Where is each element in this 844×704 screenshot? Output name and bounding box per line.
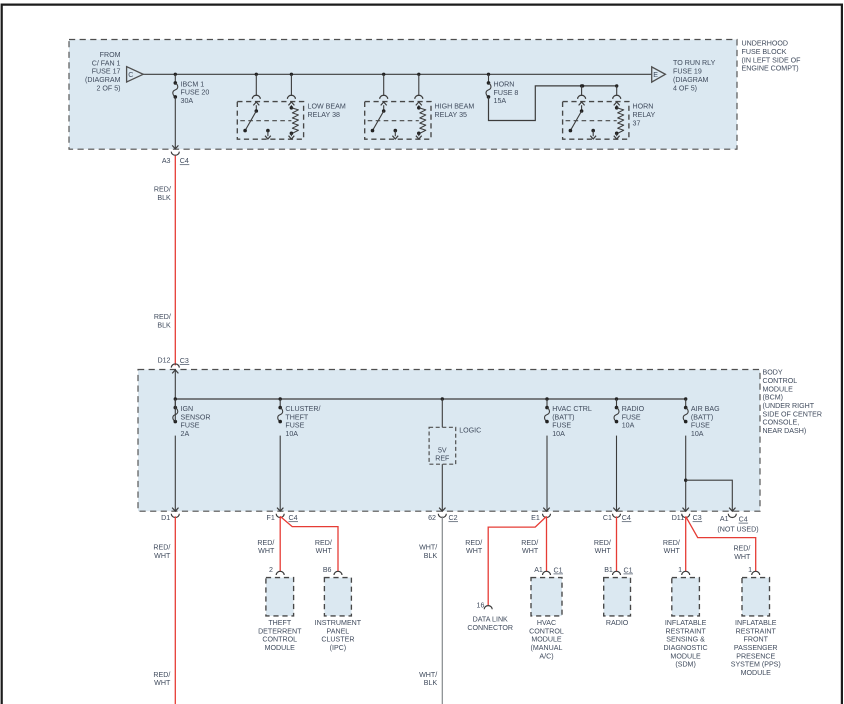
svg-text:SYSTEM (PPS): SYSTEM (PPS) [731, 661, 781, 669]
svg-text:A/C): A/C) [539, 652, 553, 660]
svg-text:RED/: RED/ [465, 539, 482, 547]
svg-text:LOW BEAM: LOW BEAM [308, 103, 346, 111]
svg-text:RED/: RED/ [257, 539, 274, 547]
svg-text:(UNDER RIGHT: (UNDER RIGHT [763, 402, 815, 410]
svg-text:MODULE: MODULE [763, 385, 794, 393]
wire RED/BLK (fuse block to BCM) [174, 156, 176, 366]
svg-text:MODULE: MODULE [265, 644, 296, 652]
svg-text:BLK: BLK [424, 679, 438, 687]
svg-text:UNDERHOOD: UNDERHOOD [742, 40, 789, 48]
svg-text:BLK: BLK [157, 321, 171, 329]
label RED/WHT (radio) [594, 539, 612, 555]
svg-text:(BCM): (BCM) [763, 394, 784, 402]
svg-text:RESTRAINT: RESTRAINT [665, 627, 706, 635]
svg-text:BLK: BLK [157, 194, 171, 202]
svg-text:(IN LEFT SIDE OF: (IN LEFT SIDE OF [742, 56, 802, 64]
svg-text:1: 1 [748, 566, 752, 574]
svg-text:C4: C4 [739, 516, 748, 524]
svg-text:WHT: WHT [316, 547, 333, 555]
svg-text:DATA LINK: DATA LINK [473, 615, 508, 623]
connector 62/C2 [428, 508, 458, 523]
svg-text:FROM: FROM [100, 51, 121, 59]
svg-text:D1: D1 [161, 514, 170, 522]
svg-text:REF: REF [435, 455, 450, 463]
label RED/WHT (DLC) [465, 539, 483, 555]
svg-text:CLUSTER/: CLUSTER/ [285, 405, 320, 413]
svg-text:RED/: RED/ [315, 539, 332, 547]
svg-text:16: 16 [477, 601, 485, 609]
svg-text:C1: C1 [624, 566, 633, 574]
svg-text:FUSE: FUSE [552, 422, 571, 430]
label WHT/BLK lower [419, 671, 437, 687]
svg-text:E: E [653, 71, 658, 79]
svg-text:RED/: RED/ [663, 539, 680, 547]
svg-text:SENSOR: SENSOR [181, 413, 211, 421]
svg-text:D12: D12 [157, 357, 170, 365]
svg-text:SENSING &: SENSING & [666, 636, 705, 644]
svg-text:WHT: WHT [258, 547, 275, 555]
data link connector (pin 16) [467, 601, 513, 631]
svg-text:F1: F1 [267, 514, 275, 522]
svg-text:B1: B1 [604, 566, 613, 574]
svg-text:HVAC: HVAC [537, 619, 556, 627]
svg-text:HVAC CTRL: HVAC CTRL [552, 405, 592, 413]
svg-text:10A: 10A [622, 422, 635, 430]
svg-text:30A: 30A [181, 97, 194, 105]
connector D12/C3 at BCM entry [157, 357, 189, 368]
svg-text:WHT: WHT [154, 552, 171, 560]
svg-text:DIAGNOSTIC: DIAGNOSTIC [664, 644, 708, 652]
svg-text:RED/: RED/ [154, 313, 171, 321]
svg-text:FUSE 8: FUSE 8 [494, 89, 519, 97]
relay HIGH BEAM RELAY 35 [365, 73, 475, 140]
svg-text:C3: C3 [180, 357, 189, 365]
svg-text:WHT: WHT [664, 547, 681, 555]
label WHT/BLK upper [419, 544, 437, 560]
svg-text:CONSOLE,: CONSOLE, [763, 419, 800, 427]
wire main feed bus [143, 73, 652, 75]
module INFLATABLE RESTRAINT PPS [731, 566, 781, 677]
svg-text:FUSE 20: FUSE 20 [181, 89, 210, 97]
svg-text:PANEL: PANEL [327, 627, 350, 635]
fuse IGN SENSOR FUSE 2A [173, 397, 211, 511]
svg-text:(MANUAL: (MANUAL [531, 644, 563, 652]
connector E1 [531, 508, 550, 522]
svg-text:AIR BAG: AIR BAG [691, 405, 720, 413]
svg-text:RED/: RED/ [153, 544, 170, 552]
svg-text:62: 62 [428, 514, 436, 522]
wire RED/WHT E1 branch to data link connector [488, 516, 546, 606]
wire RED/WHT F1 branch to IPC [280, 516, 338, 571]
svg-text:PASSENGER: PASSENGER [734, 644, 778, 652]
svg-text:WHT: WHT [734, 553, 751, 561]
svg-text:C2: C2 [449, 514, 458, 522]
svg-text:RELAY: RELAY [633, 111, 656, 119]
off-page arrow C (from C/Fan 1 Fuse 17) [85, 51, 143, 92]
svg-text:FUSE 19: FUSE 19 [673, 68, 702, 76]
svg-text:PRESENCE: PRESENCE [736, 652, 775, 660]
connector A3/C4 at fuse block exit [162, 152, 189, 166]
fuse CLUSTER/THEFT FUSE 10A [278, 397, 321, 511]
svg-text:RELAY 38: RELAY 38 [308, 111, 341, 119]
fuse IBCM 1 FUSE 20 30A [172, 73, 209, 149]
body control module (BCM) dashed box [138, 370, 760, 512]
svg-text:2 OF 5): 2 OF 5) [96, 84, 120, 92]
svg-text:(BATT): (BATT) [552, 413, 574, 421]
svg-text:MODULE: MODULE [741, 669, 772, 677]
svg-text:37: 37 [633, 119, 641, 127]
module THEFT DETERRENT CONTROL MODULE [258, 566, 302, 652]
connector C1/C4 [603, 508, 631, 523]
svg-text:10A: 10A [552, 430, 565, 438]
svg-text:10A: 10A [285, 430, 298, 438]
svg-text:WHT: WHT [595, 547, 612, 555]
svg-text:A1: A1 [720, 515, 729, 523]
module INFLATABLE RESTRAINT SDM [664, 566, 708, 669]
svg-text:(DIAGRAM: (DIAGRAM [673, 76, 709, 84]
wire horn fuse to horn relay [489, 84, 617, 120]
svg-text:CONTROL: CONTROL [763, 377, 798, 385]
svg-text:(IPC): (IPC) [330, 644, 347, 652]
off-page arrow E (to Run Rly Fuse 19) [652, 59, 716, 92]
label RED/WHT (SDM) [663, 539, 681, 555]
label RED/WHT (F1) [257, 539, 275, 555]
svg-text:(NOT USED): (NOT USED) [717, 526, 758, 534]
svg-text:10A: 10A [691, 430, 704, 438]
svg-text:MODULE: MODULE [670, 652, 701, 660]
svg-text:A3: A3 [162, 157, 171, 165]
svg-text:HORN: HORN [633, 103, 654, 111]
svg-text:BLK: BLK [424, 552, 438, 560]
connector A1/C4 (not used) [717, 508, 758, 534]
logic block 5V REF [429, 397, 481, 511]
label RED/BLK lower [154, 313, 171, 329]
svg-text:FUSE: FUSE [691, 422, 710, 430]
wire RED/WHT D11 to SDM [685, 516, 687, 571]
svg-text:C: C [128, 71, 133, 79]
svg-text:HIGH BEAM: HIGH BEAM [435, 103, 475, 111]
module RADIO [604, 566, 633, 627]
wire RED/WHT D11 branch to PPS module [686, 516, 756, 571]
wire BCM entry [172, 370, 178, 399]
wire RED/WHT C1 to radio [616, 516, 618, 571]
connector D1 [161, 508, 179, 522]
svg-text:(BATT): (BATT) [691, 413, 713, 421]
svg-text:C4: C4 [622, 514, 631, 522]
fuse HVAC CTRL (BATT) FUSE 10A [545, 397, 592, 511]
label RED/WHT (HVAC) [521, 539, 539, 555]
svg-text:WHT: WHT [466, 547, 483, 555]
svg-text:INFLATABLE: INFLATABLE [735, 619, 777, 627]
svg-text:B6: B6 [323, 566, 332, 574]
label RED/BLK upper [154, 186, 171, 202]
svg-text:RELAY 35: RELAY 35 [435, 111, 468, 119]
svg-text:C1: C1 [603, 514, 612, 522]
svg-text:(SDM): (SDM) [675, 661, 696, 669]
svg-text:HORN: HORN [494, 80, 515, 88]
svg-text:FUSE BLOCK: FUSE BLOCK [742, 48, 787, 56]
svg-text:SIDE OF CENTER: SIDE OF CENTER [763, 410, 823, 418]
fuse RADIO FUSE 10A [614, 397, 645, 511]
svg-text:MODULE: MODULE [531, 636, 562, 644]
svg-text:THEFT: THEFT [285, 413, 309, 421]
svg-text:5V: 5V [438, 447, 447, 455]
connector D11/C3 [672, 508, 702, 523]
svg-text:WHT/: WHT/ [419, 544, 437, 552]
svg-text:RED/: RED/ [521, 539, 538, 547]
svg-text:15A: 15A [494, 97, 507, 105]
fuse AIR BAG (BATT) FUSE 10A [683, 397, 719, 511]
svg-text:RADIO: RADIO [606, 619, 629, 627]
underhood fuse block (dashed box) [69, 40, 737, 150]
svg-text:TO RUN RLY: TO RUN RLY [673, 59, 716, 67]
label underhood fuse block [742, 40, 802, 73]
svg-text:C4: C4 [289, 514, 298, 522]
svg-text:C1: C1 [554, 566, 563, 574]
svg-text:FUSE: FUSE [285, 422, 304, 430]
module HVAC CONTROL MODULE [529, 566, 564, 660]
svg-text:LOGIC: LOGIC [459, 427, 481, 435]
wire WHT/BLK from 62 to page bottom [441, 516, 443, 704]
svg-text:WHT/: WHT/ [419, 671, 437, 679]
label RED/WHT (IPC) [315, 539, 333, 555]
module INSTRUMENT PANEL CLUSTER [315, 566, 362, 652]
relay HORN RELAY 37 [563, 84, 656, 139]
svg-text:CONNECTOR: CONNECTOR [467, 624, 513, 632]
svg-text:CLUSTER: CLUSTER [321, 636, 354, 644]
svg-text:DETERRENT: DETERRENT [258, 627, 302, 635]
label RED/WHT (D1 lower) [153, 671, 171, 687]
relay LOW BEAM RELAY 38 [237, 73, 346, 140]
svg-text:NEAR DASH): NEAR DASH) [763, 427, 807, 435]
svg-text:IGN: IGN [181, 405, 194, 413]
svg-text:RED/: RED/ [154, 186, 171, 194]
wire BCM internal bus [175, 398, 685, 400]
connector F1/C4 [267, 508, 298, 523]
svg-text:RED/: RED/ [594, 539, 611, 547]
svg-text:FRONT: FRONT [744, 636, 769, 644]
svg-text:CONTROL: CONTROL [262, 636, 297, 644]
label RED/WHT (D1 upper) [153, 544, 171, 560]
svg-text:FUSE 17: FUSE 17 [92, 68, 121, 76]
svg-text:IBCM 1: IBCM 1 [181, 80, 205, 88]
svg-text:WHT: WHT [522, 547, 539, 555]
svg-text:4 OF 5): 4 OF 5) [673, 84, 697, 92]
svg-text:INSTRUMENT: INSTRUMENT [315, 619, 362, 627]
svg-text:2A: 2A [181, 430, 190, 438]
svg-text:C4: C4 [180, 157, 189, 165]
wire RED/WHT from D1 to page bottom [174, 516, 176, 704]
svg-text:A1: A1 [534, 566, 543, 574]
svg-text:E1: E1 [531, 514, 540, 522]
wire RED/WHT E1 to HVAC [546, 516, 548, 571]
svg-text:FUSE: FUSE [622, 413, 641, 421]
svg-text:RADIO: RADIO [622, 405, 645, 413]
svg-text:C3: C3 [693, 514, 702, 522]
svg-text:BODY: BODY [763, 369, 783, 377]
label body control module [763, 369, 823, 435]
wire air bag branch to A1 [684, 479, 732, 512]
svg-text:FUSE: FUSE [181, 422, 200, 430]
svg-text:RED/: RED/ [153, 671, 170, 679]
svg-text:INFLATABLE: INFLATABLE [665, 619, 707, 627]
svg-text:C/ FAN 1: C/ FAN 1 [92, 59, 121, 67]
svg-text:2: 2 [269, 566, 273, 574]
svg-text:RED/: RED/ [733, 545, 750, 553]
svg-text:ENGINE COMPT): ENGINE COMPT) [742, 65, 799, 73]
svg-text:RESTRAINT: RESTRAINT [736, 627, 777, 635]
svg-text:THEFT: THEFT [268, 619, 292, 627]
label RED/WHT (PPS) [733, 545, 751, 561]
svg-text:CONTROL: CONTROL [529, 627, 564, 635]
svg-text:WHT: WHT [154, 679, 171, 687]
svg-text:(DIAGRAM: (DIAGRAM [85, 76, 121, 84]
fuse HORN FUSE 8 15A [486, 73, 518, 105]
svg-text:1: 1 [678, 566, 682, 574]
svg-text:D11: D11 [672, 514, 685, 522]
wire RED/WHT F1 to theft deterrent module [279, 516, 281, 571]
